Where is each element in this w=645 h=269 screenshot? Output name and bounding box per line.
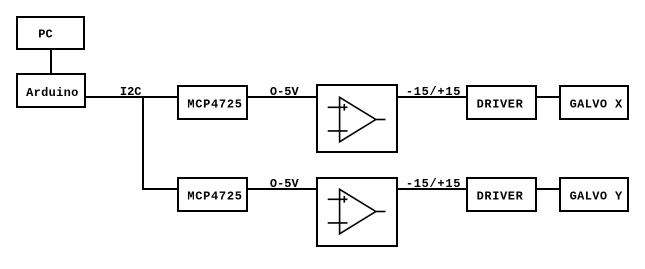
op-amp U2 symbol (Y channel) — [328, 189, 386, 234]
wire driver X to galvo X — [536, 96, 560, 98]
svg-text:MCP4725: MCP4725 — [187, 190, 242, 204]
block GALVO X — [560, 86, 628, 119]
wire junction to MCP4725 Y — [142, 188, 178, 190]
svg-text:I2C: I2C — [120, 85, 142, 99]
svg-text:O-5V: O-5V — [270, 177, 300, 191]
wire amplifier Y to driver Y — [397, 188, 467, 190]
wire MCP4725 X to amplifier X — [247, 96, 317, 98]
block GALVO Y — [560, 178, 628, 211]
op-amp U1 symbol (X channel) — [328, 97, 386, 142]
block PC — [17, 17, 84, 49]
svg-text:DRIVER: DRIVER — [477, 98, 524, 112]
wire amplifier X to driver X — [397, 96, 467, 98]
block DRIVER Y — [467, 178, 536, 211]
block Arduino — [17, 74, 85, 107]
block MCP4725 Y DAC — [178, 178, 247, 211]
svg-text:GALVO X: GALVO X — [570, 98, 623, 112]
wire I2C bus junction drop — [142, 96, 144, 189]
svg-text:-15/+15: -15/+15 — [406, 85, 461, 99]
block MCP4725 X DAC — [178, 86, 247, 119]
svg-text:DRIVER: DRIVER — [477, 190, 524, 204]
wire MCP4725 Y to amplifier Y — [247, 188, 317, 190]
wire PC to Arduino — [50, 49, 52, 74]
block amplifier Y — [317, 178, 397, 246]
svg-text:MCP4725: MCP4725 — [187, 98, 242, 112]
svg-text:GALVO Y: GALVO Y — [570, 190, 623, 204]
block amplifier X — [317, 85, 397, 152]
svg-text:PC: PC — [38, 28, 52, 42]
wire driver Y to galvo Y — [536, 188, 560, 190]
svg-text:-15/+15: -15/+15 — [406, 177, 461, 191]
svg-text:O-5V: O-5V — [270, 85, 300, 99]
wire Arduino to MCP4725 X (I2C bus) — [85, 96, 178, 98]
block DRIVER X — [467, 86, 536, 119]
svg-text:Arduino: Arduino — [26, 86, 78, 100]
